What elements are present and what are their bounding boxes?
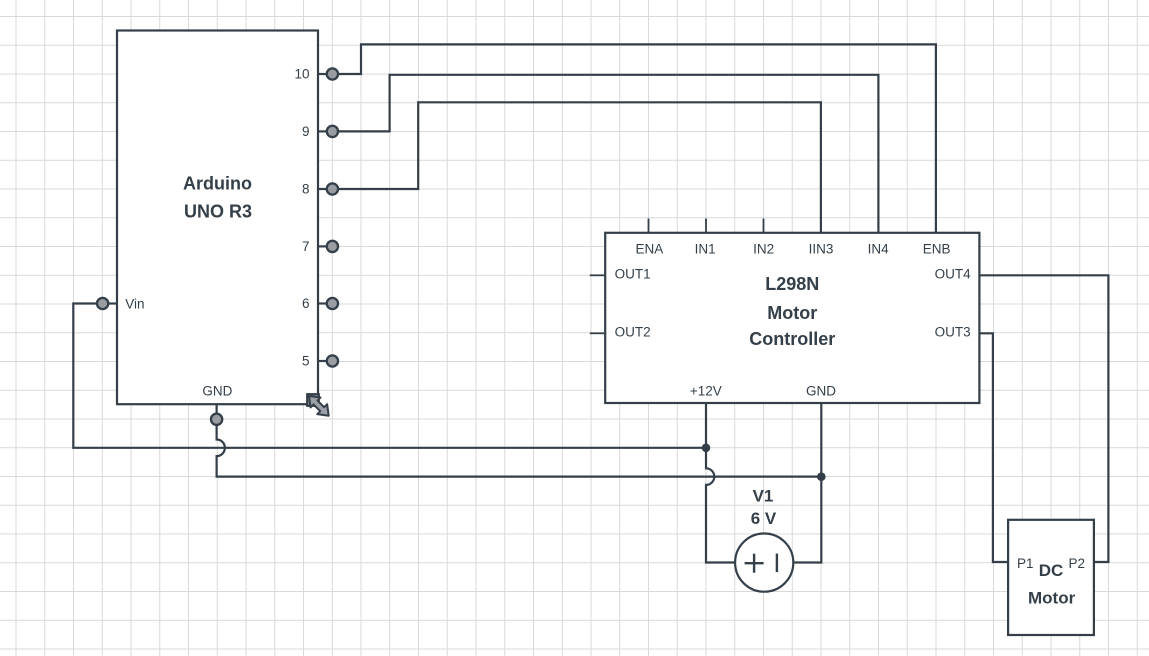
pin OUT2 stub [590,325,651,340]
junction node at +12V/Vin [702,444,711,453]
wire pin8 to IIN3 [338,102,821,233]
pin 7 [302,239,338,254]
pin GND (Arduino) [202,384,232,425]
svg-text:OUT1: OUT1 [615,267,651,282]
svg-text:UNO R3: UNO R3 [184,202,252,222]
svg-text:P1: P1 [1017,556,1034,571]
junction node at GND wires [817,472,826,481]
svg-text:Arduino: Arduino [183,173,252,193]
selection handle square at Arduino corner [307,394,319,406]
svg-text:IN1: IN1 [695,242,716,257]
wire +12V to V1 plus terminal (with hop) [706,403,735,563]
svg-text:P2: P2 [1069,556,1086,571]
pin Vin [97,296,145,311]
svg-text:GND: GND [806,383,836,398]
svg-text:Motor: Motor [767,303,817,323]
svg-text:IIN3: IIN3 [809,242,834,257]
svg-text:OUT4: OUT4 [935,267,971,282]
DC Motor box M1 [1008,520,1094,635]
svg-text:Motor: Motor [1028,588,1076,607]
svg-text:5: 5 [302,354,310,369]
wire L298N GND to V1 minus terminal [794,403,822,563]
svg-text:8: 8 [302,182,310,197]
wire OUT4 to motor P2 [979,275,1108,562]
pin IN1 stub [695,219,716,257]
svg-text:ENB: ENB [923,242,951,257]
svg-text:9: 9 [302,124,310,139]
svg-text:IN4: IN4 [868,242,890,257]
svg-text:10: 10 [294,67,309,82]
svg-text:GND: GND [202,384,232,399]
svg-text:Vin: Vin [125,296,144,311]
wire Vin to +12V node [73,304,706,448]
pin 10 [294,67,338,82]
pin 9 [302,124,338,139]
pin OUT1 stub [590,267,651,282]
Arduino UNO R3 box U1 [117,31,318,405]
resize cursor arrow [309,396,329,416]
pin IN2 stub [753,219,774,257]
pin ENA stub [636,219,664,257]
wire pin9 to IN4 [338,75,878,233]
voltage source V1 [735,534,793,592]
svg-text:DC: DC [1039,561,1064,580]
svg-text:V1: V1 [753,487,774,506]
svg-text:7: 7 [302,239,310,254]
wire pin10 to ENB [338,44,936,232]
svg-text:+12V: +12V [690,383,722,398]
svg-text:Controller: Controller [749,329,835,349]
svg-text:6: 6 [302,296,310,311]
svg-text:L298N: L298N [765,274,819,294]
svg-text:OUT2: OUT2 [615,325,651,340]
wire OUT3 to motor P1 [979,333,1008,562]
svg-text:6 V: 6 V [751,509,777,528]
pin 8 [302,182,338,197]
svg-text:IN2: IN2 [753,242,774,257]
svg-text:ENA: ENA [636,242,664,257]
pin 5 [302,354,338,369]
L298N Motor Controller box U2 [605,233,979,403]
pin 6 [302,296,338,311]
svg-text:OUT3: OUT3 [935,325,971,340]
wire Arduino GND to L298N GND node (with hop) [217,425,822,476]
